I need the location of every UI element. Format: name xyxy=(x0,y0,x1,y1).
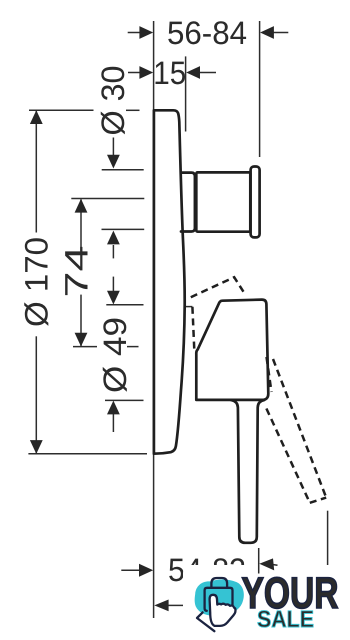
wire extension line lever end tilted xyxy=(327,511,329,565)
svg-text:56-84: 56-84 xyxy=(167,15,247,51)
extension line cylinder bottom (D30) xyxy=(102,228,145,230)
dimension D30 xyxy=(95,66,131,259)
extension line handle top (D49) xyxy=(106,304,143,306)
dimension D170 xyxy=(19,110,55,454)
svg-text:Ø 49: Ø 49 xyxy=(97,317,133,393)
extension line handle axis (74 bottom) xyxy=(73,346,97,348)
dimension D49 xyxy=(97,277,133,432)
wire extension line lever end vertical xyxy=(258,548,260,574)
dashed alternate handle top edge xyxy=(191,277,244,297)
logo blob teal xyxy=(195,580,244,616)
dimension second arrow at wall (lower) xyxy=(168,604,184,606)
svg-text:15: 15 xyxy=(153,55,186,91)
wire extension line right of 15 xyxy=(185,56,187,131)
extension line cylinder axis (74 top) xyxy=(71,198,144,200)
wire wall extension line left xyxy=(153,21,155,618)
dashed alternate lever left edge xyxy=(266,409,309,503)
extension line handle bottom (D49) xyxy=(105,399,144,401)
dashed alternate body right edge xyxy=(267,357,272,392)
dimension 54-82 bottom xyxy=(121,552,277,588)
dashed alternate handle left edge xyxy=(192,307,194,350)
svg-text:Ø 170: Ø 170 xyxy=(19,237,55,327)
wire extension line right of 56-84 xyxy=(259,21,261,157)
svg-text:Ø 30: Ø 30 xyxy=(95,66,131,136)
dimension 56-84 xyxy=(128,15,289,51)
handle lever stem xyxy=(231,400,264,543)
cartridge cylinder xyxy=(196,172,250,231)
logo hand wrist lines xyxy=(197,612,214,631)
logo hand cursor xyxy=(210,595,236,626)
dimension 74 xyxy=(59,199,95,347)
dashed alternate lever end cap xyxy=(310,498,326,503)
cartridge end cap xyxy=(251,167,260,238)
dashed alternate lever right edge xyxy=(273,359,326,498)
svg-text:74: 74 xyxy=(59,246,95,298)
dimension 15 xyxy=(128,55,216,91)
extension line top (plate top / D170 top) xyxy=(29,109,94,111)
svg-text:SALE: SALE xyxy=(257,606,314,632)
extension line cylinder top (D30) xyxy=(102,169,144,171)
logo shopping bag xyxy=(205,578,233,611)
cartridge collar xyxy=(181,173,195,232)
logo white backdrop xyxy=(183,565,350,640)
handle body xyxy=(196,300,268,400)
escutcheon plate side view xyxy=(154,110,185,453)
extension line plate bottom (D170) xyxy=(28,453,147,455)
